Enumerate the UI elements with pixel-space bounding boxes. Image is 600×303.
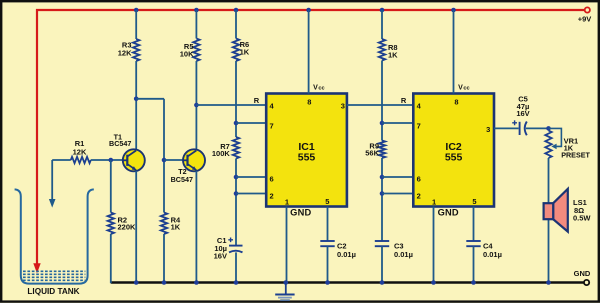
svg-text:cc: cc: [463, 85, 469, 91]
svg-text:16V: 16V: [516, 109, 529, 118]
wire to IC2 pin 2: [382, 193, 413, 195]
wire down to T2 base: [162, 99, 167, 213]
ground rail: [111, 281, 584, 284]
svg-text:3: 3: [341, 101, 345, 110]
preset VR1: [545, 128, 590, 159]
resistor R6: [233, 39, 250, 62]
label T2: [171, 167, 193, 184]
wire IC1 pin 3 to IC2 pin 4: [347, 104, 413, 106]
resistor R3: [118, 39, 140, 61]
capacitor C5: [512, 94, 529, 135]
transistor T1 BC547: [123, 149, 145, 171]
wire +9V to R5: [194, 8, 199, 39]
svg-text:2: 2: [417, 192, 421, 201]
svg-text:10K: 10K: [180, 50, 194, 59]
svg-text:7: 7: [270, 121, 274, 130]
svg-text:cc: cc: [318, 85, 324, 91]
wire C5 to VR1: [526, 126, 551, 131]
svg-text:5: 5: [472, 197, 476, 206]
resistor R8: [379, 39, 398, 61]
svg-text:GND: GND: [438, 207, 459, 217]
wire R9 to C3: [380, 158, 385, 241]
wire IC1 pin 1 to ground: [284, 207, 289, 285]
svg-text:R: R: [401, 96, 407, 105]
resistor R9: [365, 141, 385, 159]
wire IC2 pin 8 Vcc: [451, 8, 456, 94]
wire R8 to R9: [380, 61, 385, 141]
wire C3 to ground rail: [380, 246, 385, 285]
wire base node down to R2: [110, 160, 112, 213]
svg-text:12K: 12K: [118, 48, 132, 57]
svg-text:7: 7: [417, 121, 421, 130]
resistor R5: [180, 39, 200, 62]
wire T2 emitter to ground rail: [194, 171, 199, 285]
terminal +9V: [578, 7, 592, 23]
resistor R7: [212, 137, 239, 159]
svg-text:16V: 16V: [214, 252, 227, 261]
svg-text:BC547: BC547: [109, 139, 131, 148]
wire +9V to R6: [234, 8, 239, 39]
svg-text:5: 5: [325, 197, 329, 206]
wire R4 to ground rail: [162, 234, 167, 285]
wire IC2 pin 1 to ground rail: [431, 207, 436, 285]
wire +9V to R3: [134, 8, 139, 39]
label Vcc IC2: [458, 84, 469, 91]
resistor R2: [108, 213, 136, 235]
wire IC2 pin 3 to C5: [494, 127, 519, 129]
capacitor C3: [375, 241, 413, 259]
svg-text:1K: 1K: [388, 51, 398, 60]
svg-text:12K: 12K: [73, 147, 87, 156]
liquid tank: [15, 189, 94, 296]
resistor R1: [71, 139, 91, 163]
terminal GND: [574, 269, 591, 285]
svg-text:1K: 1K: [240, 48, 250, 57]
wire collector node to T2 base line: [136, 98, 164, 100]
svg-text:BC547: BC547: [171, 175, 193, 184]
svg-text:2: 2: [270, 192, 274, 201]
svg-text:3: 3: [486, 125, 490, 134]
svg-text:R: R: [254, 96, 260, 105]
svg-text:100K: 100K: [212, 149, 231, 158]
wire to IC2 pin 6: [382, 176, 413, 178]
wire T1 emitter to ground rail: [134, 171, 139, 285]
svg-text:555: 555: [445, 151, 463, 163]
speaker LS1: [544, 189, 592, 232]
wire IC1 pin 8 Vcc: [306, 8, 311, 94]
svg-text:LIQUID TANK: LIQUID TANK: [27, 287, 79, 296]
svg-text:555: 555: [298, 151, 316, 163]
ground symbol: [275, 283, 294, 301]
svg-text:0.01µ: 0.01µ: [337, 250, 356, 259]
op-amp/timer U IC1 555: [266, 94, 347, 207]
svg-text:0.01µ: 0.01µ: [483, 250, 502, 259]
wire to IC2 pin 7: [382, 122, 413, 124]
op-amp/timer U IC2 555: [413, 94, 494, 207]
label Vcc IC1: [313, 84, 324, 91]
wire +9V supply rail (red): [33, 10, 584, 273]
svg-text:8: 8: [454, 98, 458, 107]
label GND IC1: [290, 207, 311, 217]
wire R7 to C1: [234, 159, 239, 246]
svg-text:PRESET: PRESET: [561, 151, 590, 160]
label GND IC2: [438, 207, 459, 217]
svg-text:1K: 1K: [171, 223, 181, 232]
wire IC1 pin 5 to C2: [327, 207, 329, 242]
capacitor C4: [466, 241, 502, 259]
capacitor C1: [214, 236, 243, 261]
svg-text:6: 6: [270, 174, 274, 183]
wire to IC1 pin 6: [236, 176, 267, 178]
svg-text:+9V: +9V: [578, 15, 592, 24]
svg-text:1: 1: [432, 197, 436, 206]
wire R1 to T1 base: [91, 158, 123, 163]
wire R5 to T2 collector: [194, 61, 199, 151]
svg-text:0.01µ: 0.01µ: [394, 250, 413, 259]
wire C2 to ground rail: [325, 246, 330, 285]
wire R3 to T1 collector: [134, 61, 139, 151]
svg-text:GND: GND: [574, 269, 591, 278]
wire T2 base: [164, 159, 183, 161]
svg-text:1: 1: [285, 197, 289, 206]
wire probe to R1: [52, 159, 71, 161]
node: sensor probe (blue): [49, 160, 56, 208]
svg-text:GND: GND: [290, 207, 311, 217]
resistor R4: [161, 213, 181, 235]
wire T2 collector to IC1 pin 4: [196, 104, 266, 106]
transistor T2 BC547: [183, 149, 205, 171]
svg-text:0.5W: 0.5W: [573, 214, 591, 223]
wire to IC1 pin 2: [236, 193, 267, 195]
wire +9V to R8: [380, 8, 385, 39]
svg-text:56K: 56K: [365, 149, 379, 158]
label R (reset) IC1: [254, 96, 260, 105]
wire VR1 to speaker and ground rail: [546, 158, 551, 285]
svg-text:8: 8: [307, 98, 311, 107]
capacitor C2: [320, 241, 356, 259]
wire C4 to ground rail: [471, 246, 476, 285]
label R (reset) IC2: [401, 96, 407, 105]
wire R2 to ground rail: [110, 234, 112, 283]
wire C1 to ground rail: [234, 252, 239, 284]
svg-text:220K: 220K: [118, 223, 137, 232]
wire R6 to R7: [234, 61, 239, 137]
wire IC2 pin 5 to C4: [473, 207, 475, 242]
svg-text:6: 6: [417, 174, 421, 183]
label T1: [109, 133, 131, 149]
wire to IC1 pin 7: [236, 122, 267, 124]
